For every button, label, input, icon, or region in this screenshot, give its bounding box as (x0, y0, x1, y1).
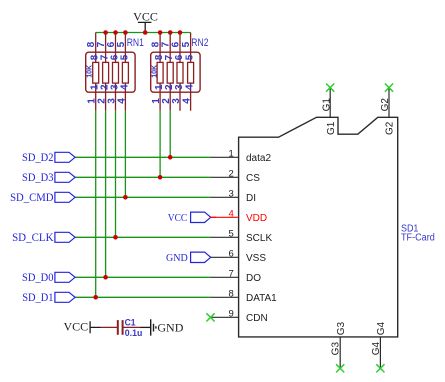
wire vertical RN1 pin 1 to SD_D1 row (95, 111, 97, 297)
IC pin G4 (371, 322, 387, 369)
svg-text:SD_D1: SD_D1 (22, 292, 53, 304)
resistor network RN1 (4 x 10K) (86, 33, 135, 111)
IC pin G2 (380, 88, 396, 135)
wire vertical RN1 pin 2 to SD_D0 row (105, 111, 107, 277)
svg-text:4: 4 (185, 84, 196, 90)
svg-text:VDD: VDD (246, 213, 267, 224)
power symbol VCC (top) (133, 9, 158, 32)
junction VCC rail / RN2 pin 7 (168, 30, 173, 35)
wire SD_D0 to IC pin 7 (75, 276, 211, 278)
svg-text:DO: DO (246, 273, 261, 284)
IC pin G1 (321, 88, 337, 135)
svg-text:data2: data2 (246, 153, 271, 164)
no-connect X at G1 (326, 84, 334, 92)
net flag SD_CLK (12, 232, 75, 244)
ground symbol GND (bottom, at C1) (141, 319, 184, 335)
svg-text:4: 4 (119, 84, 130, 90)
junction node SD_D3 (158, 175, 163, 180)
svg-text:GND: GND (157, 321, 183, 335)
wire SD_D3 to IC pin 2 (75, 176, 211, 178)
svg-text:SCLK: SCLK (246, 233, 272, 244)
IC SD1 TF-Card socket outline (239, 117, 398, 337)
RN2 pin numbers (8 7 6 5 / 1 2 3 4) and value 10K (151, 41, 196, 103)
IC pin 1 data2 (211, 148, 272, 164)
svg-text:6: 6 (229, 248, 234, 259)
svg-text:G4: G4 (371, 342, 382, 356)
IC pin G3 (331, 322, 347, 369)
svg-text:10K: 10K (152, 65, 159, 78)
junction VCC rail / RN1 pin 7 (103, 30, 108, 35)
IC pin 6 VSS (211, 248, 267, 264)
IC pin 7 DO (211, 268, 262, 284)
svg-text:G3: G3 (336, 322, 347, 336)
wire SD_D1 to IC pin 8 (75, 296, 211, 298)
no-connect X at pin 9 CDN (206, 313, 214, 321)
svg-text:DATA1: DATA1 (246, 293, 277, 304)
junction node SD_CMD (123, 195, 128, 200)
svg-text:G1: G1 (321, 98, 332, 112)
IC reference SD1 TF-Card (401, 224, 435, 244)
junction VCC rail / RN1 pin 5 (123, 30, 128, 35)
net flag SD_D0 (22, 272, 75, 284)
wire VCC rail (96, 32, 191, 34)
svg-text:SD_CMD: SD_CMD (10, 192, 53, 204)
IC pin 2 CS (211, 168, 261, 184)
svg-text:C1: C1 (125, 317, 137, 328)
net flag GND (to pin 6) (166, 252, 211, 264)
svg-text:CS: CS (246, 173, 260, 184)
svg-text:5: 5 (185, 54, 196, 60)
junction node SD_D0 (103, 275, 108, 280)
svg-text:4: 4 (229, 208, 234, 219)
junction node SD_D2 (168, 155, 173, 160)
IC pin 3 DI (211, 188, 256, 204)
wire VCC net to pin 4 (red) (211, 216, 216, 218)
svg-text:5: 5 (116, 41, 127, 47)
IC pin 5 SCLK (211, 228, 273, 244)
no-connect X at G3 (336, 364, 344, 372)
svg-text:0.1u: 0.1u (125, 328, 143, 339)
svg-text:4: 4 (182, 98, 193, 104)
junction node SD_D1 (93, 295, 98, 300)
svg-text:G3: G3 (331, 342, 342, 356)
net flag VCC (to pin 4) (168, 212, 211, 224)
net flag SD_D2 (22, 152, 75, 164)
wire vertical RN2 pin 1 to SD_D3 row (159, 111, 161, 178)
svg-text:3: 3 (229, 188, 234, 199)
wire SD_CLK to IC pin 5 (75, 236, 211, 238)
svg-text:1: 1 (229, 148, 234, 159)
svg-text:6: 6 (170, 41, 181, 47)
wire SD_CMD to IC pin 3 (75, 196, 211, 198)
capacitor C1 (101, 320, 141, 335)
net flag SD_CMD (10, 192, 75, 204)
svg-text:VSS: VSS (246, 253, 266, 264)
svg-text:VCC: VCC (64, 319, 89, 333)
junction node SD_CLK (113, 235, 118, 240)
IC pin 9 CDN (211, 308, 268, 324)
power symbol VCC (bottom, at C1) (64, 319, 101, 333)
svg-text:7: 7 (229, 268, 234, 279)
junction VCC rail / RN1 pin 6 (113, 30, 118, 35)
svg-text:G4: G4 (376, 322, 387, 336)
svg-text:3: 3 (174, 84, 185, 90)
svg-text:GND: GND (166, 252, 188, 264)
svg-text:DI: DI (246, 193, 256, 204)
wire vertical RN2 pin 2 to SD_D2 row (169, 111, 171, 158)
svg-text:CDN: CDN (246, 313, 268, 324)
svg-text:2: 2 (229, 168, 234, 179)
junction VCC rail / VCC symbol stem (143, 30, 148, 35)
IC pin 8 DATA1 (211, 288, 278, 304)
no-connect X at G2 (385, 84, 393, 92)
net flag SD_D1 (22, 292, 75, 304)
svg-text:3: 3 (171, 98, 182, 104)
svg-text:RN2: RN2 (191, 37, 208, 49)
svg-text:8: 8 (229, 288, 234, 299)
RN1 pin numbers (8 7 6 5 / 1 2 3 4) and value 10K (86, 41, 130, 103)
svg-text:SD_D3: SD_D3 (22, 172, 54, 184)
svg-text:G2: G2 (385, 121, 396, 135)
svg-text:VCC: VCC (133, 9, 158, 23)
junction VCC rail / RN2 pin 8 (158, 30, 163, 35)
svg-text:RN1: RN1 (127, 37, 144, 49)
wire vertical RN1 pin 3 to SD_CLK row (115, 111, 117, 238)
junction VCC rail / RN2 pin 6 (178, 30, 183, 35)
svg-text:4: 4 (116, 98, 127, 104)
resistor network RN2 (4 x 10K) (151, 33, 200, 111)
svg-text:10K: 10K (87, 65, 94, 78)
svg-text:5: 5 (229, 228, 234, 239)
net flag SD_D3 (22, 172, 75, 184)
svg-text:VCC: VCC (168, 212, 187, 224)
svg-text:SD_D2: SD_D2 (22, 152, 54, 164)
svg-text:G1: G1 (326, 121, 337, 135)
svg-text:G2: G2 (380, 98, 391, 112)
svg-text:9: 9 (229, 308, 234, 319)
wire vertical RN1 pin 4 to SD_CMD row (124, 111, 126, 198)
IC pin 4 VDD (211, 208, 268, 224)
wire SD_D2 to IC pin 1 (75, 156, 211, 158)
svg-text:6: 6 (174, 54, 185, 60)
no-connect X at G4 (376, 364, 384, 372)
svg-text:5: 5 (119, 54, 130, 60)
svg-text:TF-Card: TF-Card (401, 232, 435, 243)
svg-text:SD_D0: SD_D0 (22, 272, 54, 284)
svg-text:SD_CLK: SD_CLK (12, 232, 53, 244)
